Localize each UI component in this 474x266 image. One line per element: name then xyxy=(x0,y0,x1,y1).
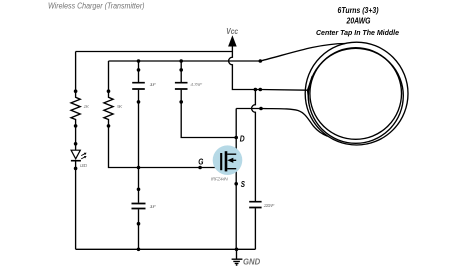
svg-text:6Turns (3+3): 6Turns (3+3) xyxy=(338,6,379,15)
svg-text:1K: 1K xyxy=(84,104,90,110)
svg-text:20AWG: 20AWG xyxy=(346,16,371,25)
svg-text:Vcc: Vcc xyxy=(226,26,238,36)
svg-text:1uF: 1uF xyxy=(150,82,157,88)
svg-text:220nF: 220nF xyxy=(263,203,276,209)
svg-text:IRFZ44N: IRFZ44N xyxy=(211,176,229,182)
svg-text:S: S xyxy=(241,179,245,189)
svg-text:5K: 5K xyxy=(117,104,123,110)
svg-text:1uF: 1uF xyxy=(150,204,157,210)
svg-text:D: D xyxy=(240,134,245,144)
svg-text:G: G xyxy=(198,156,203,166)
svg-text:Center Tap In The Middle: Center Tap In The Middle xyxy=(316,28,400,37)
svg-text:Wireless Charger (Transmitter): Wireless Charger (Transmitter) xyxy=(48,2,145,11)
svg-text:LED: LED xyxy=(80,163,88,169)
svg-text:4.7nF: 4.7nF xyxy=(190,82,203,88)
svg-text:GND: GND xyxy=(243,256,260,266)
